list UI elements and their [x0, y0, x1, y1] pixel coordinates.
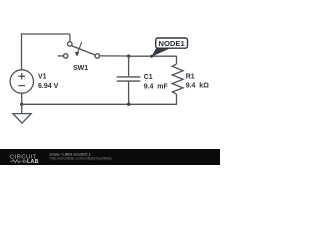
- svg-text:LAB: LAB: [27, 159, 39, 165]
- SW1 blade: [71, 46, 95, 56]
- voltage source V1 circle: [10, 70, 33, 93]
- node callout tip dot: [150, 55, 153, 58]
- watermark logo resistor squiggle: [10, 160, 27, 163]
- ground stub: [21, 104, 23, 113]
- svg-text:SW1: SW1: [73, 65, 88, 72]
- resistor R1 bottom lead: [176, 94, 178, 105]
- svg-text:C1: C1: [144, 74, 153, 81]
- wire: SW1 to C1 top: [99, 55, 128, 57]
- SW1 common terminal circle: [68, 42, 73, 47]
- watermark bar: [0, 149, 220, 165]
- SW1 closed throw circle: [95, 54, 100, 59]
- junction dot at C1 top: [127, 54, 130, 57]
- junction dot at C1 bottom: [127, 103, 130, 106]
- SW1 open throw circle: [63, 54, 68, 59]
- svg-text:V1: V1: [38, 74, 47, 81]
- resistor R1 zigzag: [172, 64, 183, 94]
- V1 plus sign: [18, 73, 25, 79]
- svg-text:9.4 mF: 9.4 mF: [144, 83, 169, 90]
- wire: V1 bottom lead: [21, 93, 23, 104]
- junction dot at V1/ground/bottom wire: [20, 103, 23, 106]
- ground triangle: [13, 114, 31, 124]
- SW1 open throw stub: [58, 55, 64, 57]
- SW1 actuator arrow shaft: [78, 42, 82, 52]
- node NODE1 callout box: [156, 38, 188, 48]
- svg-text:R1: R1: [186, 74, 195, 81]
- V1 minus sign: [18, 85, 25, 87]
- wire: C1 top to R1 corner: [129, 56, 177, 64]
- SW1 actuator arrowhead: [75, 52, 79, 57]
- svg-text:9.4 kΩ: 9.4 kΩ: [186, 83, 210, 90]
- capacitor C1 bottom lead: [128, 82, 130, 105]
- wire: left vertical (top wire down to V1 top lead): [21, 33, 23, 70]
- capacitor C1 top lead: [128, 56, 130, 76]
- node callout tail: [151, 48, 169, 57]
- svg-text:NODE1: NODE1: [159, 39, 186, 48]
- capacitor C1 top plate: [117, 76, 141, 78]
- switch SW1 top lead: [69, 34, 71, 42]
- wire: bottom horizontal: [22, 103, 177, 105]
- schematic background: [0, 0, 220, 165]
- svg-text:http://circuitlab.com/c/4pj6my: http://circuitlab.com/c/4pj6myar5k6q: [50, 156, 112, 161]
- svg-text:6.94 V: 6.94 V: [38, 83, 59, 90]
- wire: top horizontal from V1 branch to SW1: [22, 33, 70, 35]
- capacitor C1 bottom plate: [117, 80, 141, 82]
